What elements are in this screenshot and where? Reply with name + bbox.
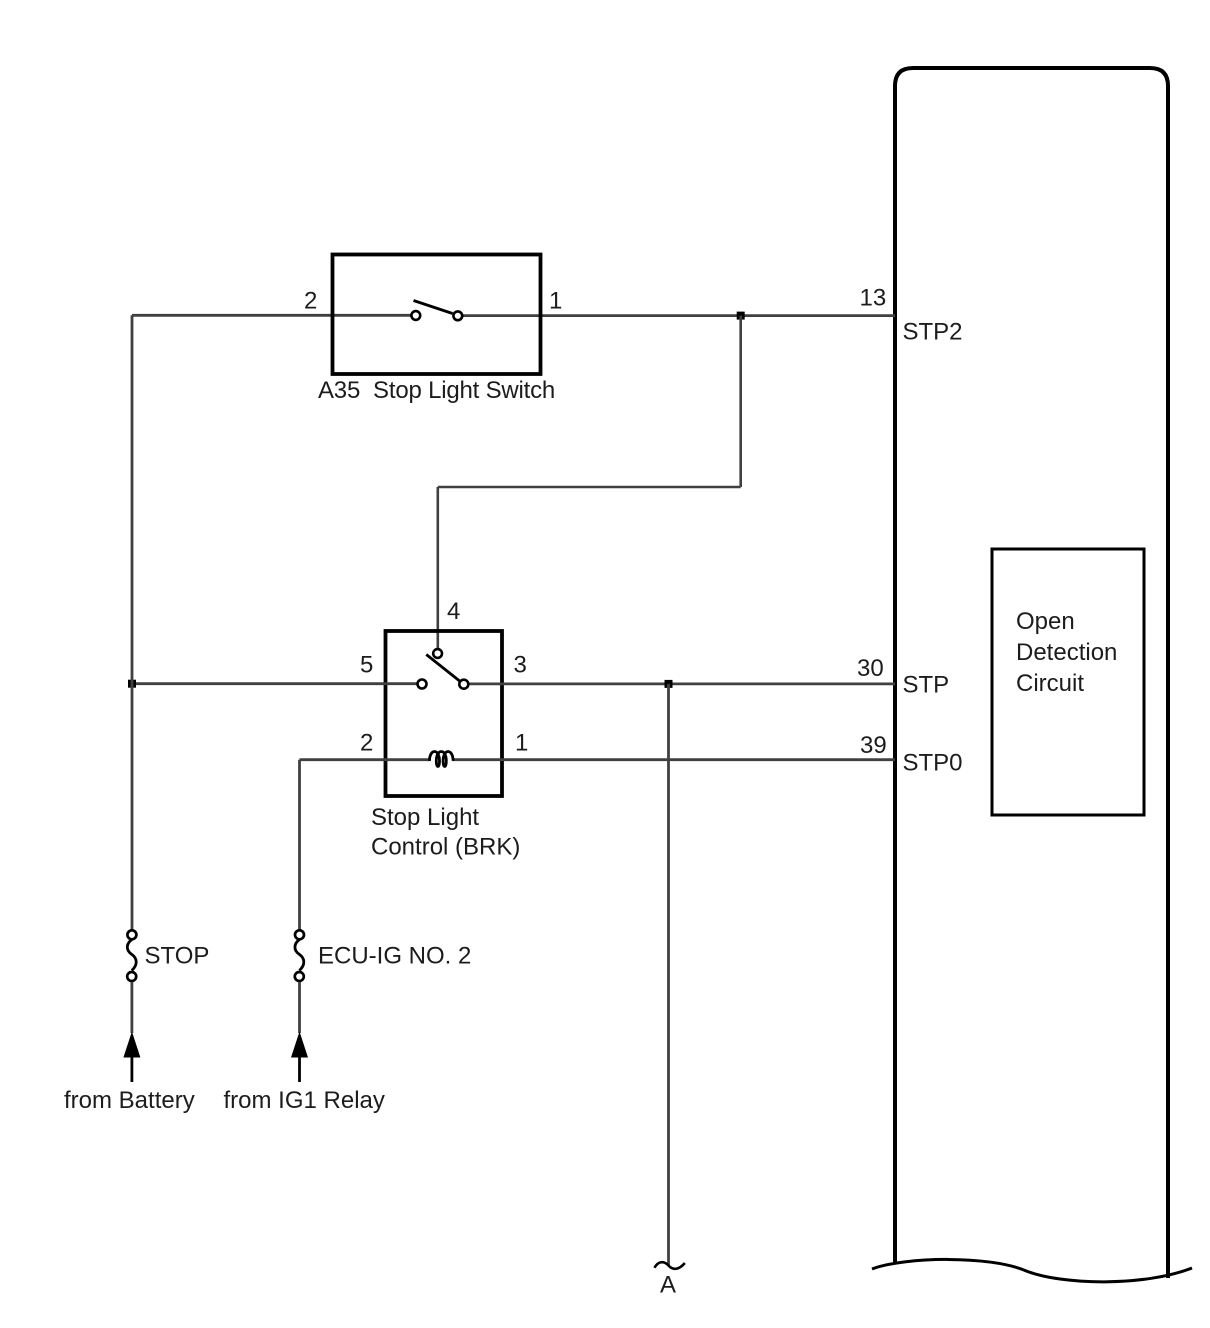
svg-text:1: 1	[549, 288, 562, 315]
svg-text:STP: STP	[903, 671, 950, 698]
wire: riser from STP2 row down to jog	[739, 316, 742, 487]
svg-text:Control (BRK): Control (BRK)	[371, 834, 520, 861]
wire: ECU-IG riser (coil row corner down to fuse)	[298, 760, 301, 936]
relay contact circle left (pin 5 side, open)	[418, 680, 427, 689]
wire: horizontal jog toward relay pin 4	[438, 486, 741, 489]
svg-text:4: 4	[447, 598, 460, 625]
node: junction dot on STP2 row above relay pin 4 riser	[737, 312, 745, 320]
Open Detection Circuit block	[992, 549, 1144, 815]
svg-text:39: 39	[860, 732, 887, 759]
svg-text:2: 2	[360, 730, 373, 757]
svg-text:STOP: STOP	[145, 943, 210, 970]
wire: drop into relay pin 4	[436, 487, 439, 650]
arrow from IG1 Relay (up-pointing)	[291, 1032, 308, 1058]
A35 switch blade	[414, 301, 453, 314]
svg-text:3: 3	[514, 652, 527, 679]
wire: STP0 / coil row (fuse riser corner through relay 2-1 to ECU pin 39), y=759.3	[300, 758, 431, 761]
svg-text:from IG1 Relay: from IG1 Relay	[224, 1087, 385, 1114]
wire: connector-A riser (STP row junction down to connector A)	[667, 684, 670, 1266]
wire: STP row (junction at left rail through relay 5-3 to ECU pin 30), y=683.7	[132, 682, 418, 685]
svg-text:ECU-IG NO. 2: ECU-IG NO. 2	[318, 943, 471, 970]
svg-text:Detection: Detection	[1016, 639, 1117, 666]
svg-text:Open: Open	[1016, 608, 1075, 635]
arrow from Battery (up-pointing)	[123, 1032, 140, 1058]
node: junction dot on STP row at connector-A riser	[665, 680, 673, 688]
wire: below ECU-IG fuse to arrow	[298, 982, 301, 1033]
svg-text:A35 Stop Light Switch: A35 Stop Light Switch	[318, 377, 555, 404]
wire: left rail (STP2 row down to STOP fuse)	[131, 315, 134, 936]
svg-text:Circuit: Circuit	[1016, 670, 1084, 697]
fuse F1 STOP	[127, 930, 136, 981]
connector A break squiggle	[655, 1262, 685, 1269]
switch A35 box	[333, 255, 541, 375]
relay pivot contact circle (pin 4)	[433, 649, 442, 658]
fuse F2 ECU-IG NO. 2	[295, 930, 304, 981]
relay blade (pin4 pivot to pin3 contact)	[426, 655, 463, 685]
wire: STP2 row (pin 2 of A35 to ECU pin 13), y=315	[132, 314, 417, 317]
relay box: Stop Light Control (BRK)	[386, 631, 503, 796]
A35 contact circle right (pin1 side)	[453, 311, 462, 320]
svg-text:STP2: STP2	[903, 319, 963, 346]
svg-text:13: 13	[860, 284, 887, 311]
relay contact circle right (pin 3 side)	[459, 680, 468, 689]
relay coil L1	[430, 752, 454, 767]
ECU torn bottom edge (wave)	[872, 1259, 1192, 1281]
svg-text:5: 5	[360, 652, 373, 679]
svg-text:Stop Light: Stop Light	[371, 804, 479, 831]
node: junction dot on left rail at STP row	[128, 680, 136, 688]
svg-text:A: A	[660, 1272, 676, 1299]
svg-text:30: 30	[857, 655, 884, 682]
svg-text:from Battery: from Battery	[64, 1087, 195, 1114]
svg-text:STP0: STP0	[903, 749, 963, 776]
svg-text:2: 2	[304, 288, 317, 315]
wire: below STOP fuse to arrow	[130, 982, 133, 1033]
svg-text:1: 1	[515, 730, 528, 757]
ECU body U1 (large rounded-corner block, wavy torn bottom)	[872, 68, 1192, 1282]
A35 contact circle left (pin2 side)	[411, 311, 420, 320]
